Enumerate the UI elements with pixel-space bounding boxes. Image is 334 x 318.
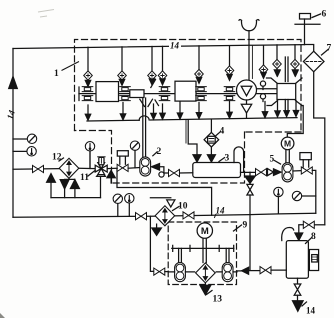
svg-text:1: 1 — [54, 69, 59, 79]
svg-text:M: M — [284, 139, 291, 149]
svg-text:11: 11 — [80, 173, 89, 183]
svg-text:5: 5 — [270, 155, 275, 165]
svg-text:2: 2 — [157, 147, 162, 157]
svg-text:9: 9 — [243, 221, 248, 231]
svg-text:3: 3 — [225, 154, 230, 164]
svg-text:6: 6 — [322, 10, 327, 20]
svg-text:10: 10 — [178, 202, 188, 212]
svg-text:7: 7 — [327, 44, 332, 54]
svg-text:13: 13 — [213, 295, 223, 305]
svg-text:M: M — [201, 226, 209, 237]
svg-text:12: 12 — [52, 153, 62, 163]
svg-text:4: 4 — [220, 127, 225, 137]
svg-text:8: 8 — [311, 232, 316, 242]
svg-text:14: 14 — [306, 306, 316, 316]
svg-text:14: 14 — [5, 109, 17, 121]
svg-text:14: 14 — [170, 41, 180, 51]
svg-text:14: 14 — [216, 206, 226, 216]
